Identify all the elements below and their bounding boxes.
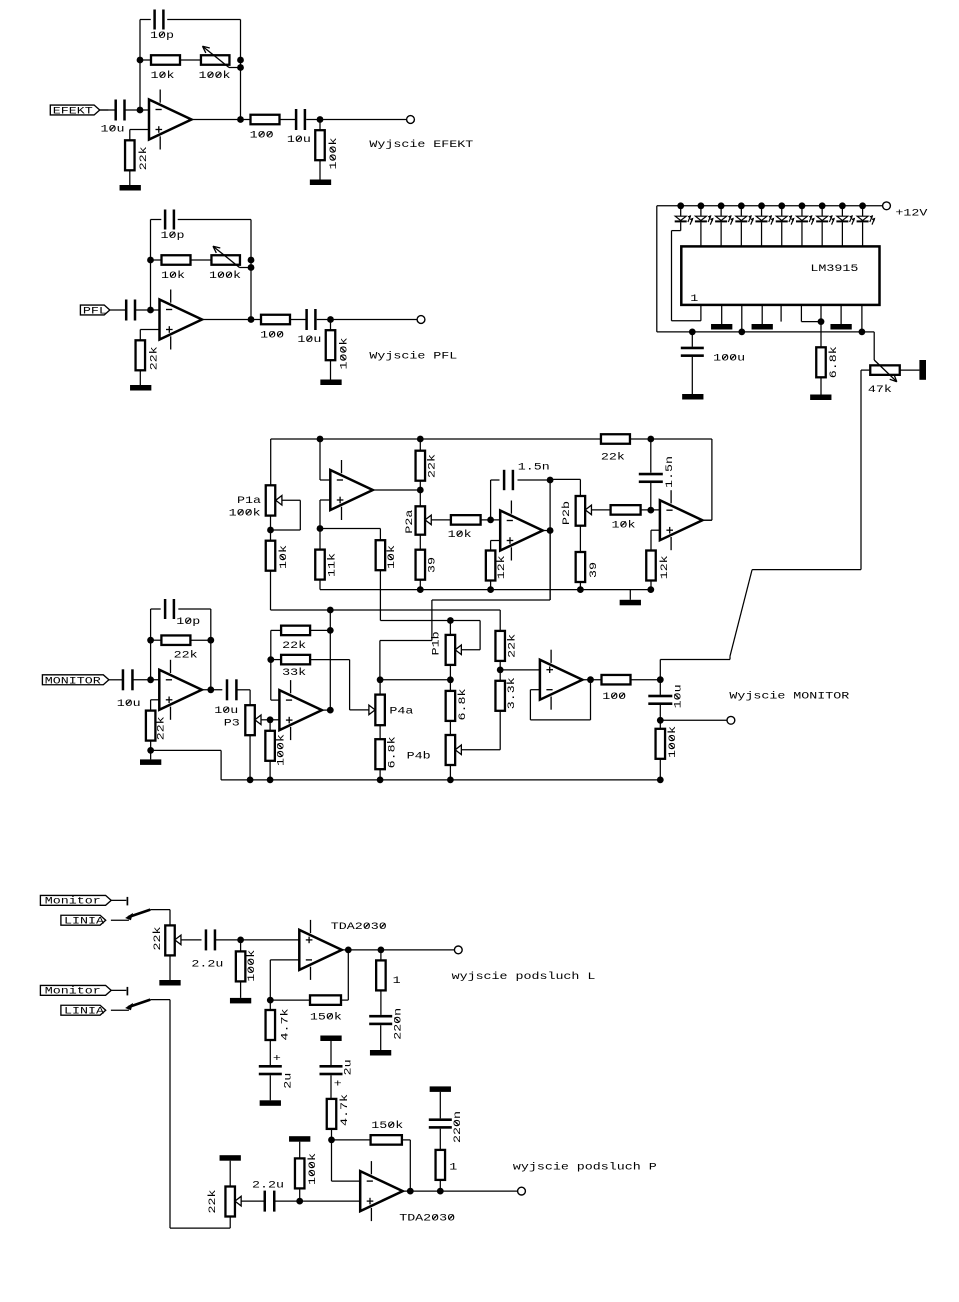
svg-text:10u: 10u: [101, 123, 125, 135]
svg-text:10k: 10k: [448, 528, 472, 540]
svg-text:Monitor: Monitor: [45, 985, 101, 997]
svg-text:+: +: [273, 1053, 281, 1065]
svg-text:wyjscie podsluch L: wyjscie podsluch L: [452, 970, 596, 982]
svg-text:11k: 11k: [326, 553, 338, 577]
svg-text:Wyjscie MONITOR: Wyjscie MONITOR: [729, 690, 849, 702]
svg-text:22k: 22k: [174, 649, 198, 661]
svg-text:EFEKT: EFEKT: [53, 105, 93, 117]
svg-text:10k: 10k: [151, 70, 175, 82]
svg-text:22k: 22k: [282, 640, 306, 652]
svg-text:100k: 100k: [667, 726, 679, 758]
svg-text:10k: 10k: [386, 545, 398, 569]
svg-text:100k: 100k: [328, 138, 340, 170]
svg-text:10u: 10u: [117, 697, 141, 709]
svg-text:4.7k: 4.7k: [339, 1094, 351, 1126]
svg-text:10p: 10p: [176, 616, 200, 628]
svg-text:Wyjscie PFL: Wyjscie PFL: [369, 350, 457, 362]
svg-text:22k: 22k: [506, 634, 518, 658]
svg-text:TDA2030: TDA2030: [399, 1212, 455, 1224]
svg-text:100: 100: [260, 329, 284, 341]
svg-text:39: 39: [587, 562, 599, 578]
svg-text:P2b: P2b: [561, 501, 573, 525]
svg-text:+: +: [334, 1078, 342, 1090]
svg-text:+12V: +12V: [895, 207, 927, 219]
svg-text:TDA2030: TDA2030: [331, 921, 387, 933]
svg-text:150k: 150k: [371, 1120, 403, 1132]
svg-text:6.8k: 6.8k: [386, 736, 398, 768]
svg-text:10k: 10k: [277, 545, 289, 569]
svg-text:100k: 100k: [307, 1153, 319, 1185]
svg-text:10k: 10k: [612, 519, 636, 531]
svg-text:47k: 47k: [868, 383, 892, 395]
svg-text:6.8k: 6.8k: [828, 346, 840, 378]
svg-text:10u: 10u: [214, 705, 238, 717]
svg-text:Wyjscie EFEKT: Wyjscie EFEKT: [369, 139, 473, 151]
svg-text:1: 1: [393, 975, 401, 987]
svg-text:22k: 22k: [148, 346, 160, 370]
svg-text:1: 1: [690, 293, 698, 305]
svg-text:100k: 100k: [229, 507, 261, 519]
svg-text:10u: 10u: [287, 134, 311, 146]
svg-text:wyjscie podsluch P: wyjscie podsluch P: [513, 1161, 657, 1173]
svg-text:LM3915: LM3915: [810, 262, 858, 274]
svg-text:150k: 150k: [310, 1011, 342, 1023]
svg-text:LINIA: LINIA: [64, 1005, 105, 1017]
svg-text:P1a: P1a: [237, 495, 261, 507]
svg-text:1.5n: 1.5n: [518, 461, 550, 473]
svg-text:12k: 12k: [658, 555, 670, 579]
svg-text:1.5n: 1.5n: [664, 456, 676, 488]
svg-text:100k: 100k: [338, 338, 350, 370]
svg-text:P2a: P2a: [403, 510, 415, 534]
svg-text:10k: 10k: [161, 270, 185, 282]
svg-text:100k: 100k: [209, 270, 241, 282]
svg-text:100k: 100k: [275, 734, 287, 766]
svg-text:10u: 10u: [297, 334, 321, 346]
svg-text:100: 100: [602, 690, 626, 702]
svg-text:22k: 22k: [151, 927, 163, 951]
svg-text:PFL: PFL: [83, 305, 107, 317]
svg-text:6.8k: 6.8k: [456, 689, 468, 721]
svg-text:4.7k: 4.7k: [279, 1009, 291, 1041]
svg-text:39: 39: [426, 557, 438, 573]
svg-text:MONITOR: MONITOR: [45, 675, 101, 687]
svg-text:100u: 100u: [713, 352, 745, 364]
svg-text:100k: 100k: [246, 950, 258, 982]
svg-text:1: 1: [449, 1161, 457, 1173]
svg-text:LINIA: LINIA: [64, 915, 105, 927]
svg-text:220n: 220n: [392, 1008, 404, 1040]
svg-text:22k: 22k: [155, 716, 167, 740]
svg-text:P4b: P4b: [407, 750, 431, 762]
svg-text:2.2u: 2.2u: [252, 1179, 284, 1191]
svg-text:2u: 2u: [282, 1073, 294, 1089]
svg-text:3.3k: 3.3k: [505, 677, 517, 709]
svg-text:22k: 22k: [426, 454, 438, 478]
svg-text:22k: 22k: [206, 1190, 218, 1214]
svg-text:10p: 10p: [161, 229, 185, 241]
svg-text:33k: 33k: [282, 667, 306, 679]
svg-text:P3: P3: [224, 717, 240, 729]
svg-text:2u: 2u: [342, 1059, 354, 1075]
svg-text:100: 100: [250, 129, 274, 141]
svg-text:12k: 12k: [496, 555, 508, 579]
svg-text:2.2u: 2.2u: [191, 958, 223, 970]
svg-text:220n: 220n: [452, 1111, 464, 1143]
svg-text:10p: 10p: [150, 29, 174, 41]
svg-text:100k: 100k: [199, 70, 231, 82]
svg-text:P1b: P1b: [430, 631, 442, 655]
svg-text:22k: 22k: [601, 451, 625, 463]
svg-text:Monitor: Monitor: [45, 895, 101, 907]
svg-text:P4a: P4a: [389, 705, 413, 717]
svg-text:22k: 22k: [138, 146, 150, 170]
svg-text:10u: 10u: [672, 684, 684, 708]
